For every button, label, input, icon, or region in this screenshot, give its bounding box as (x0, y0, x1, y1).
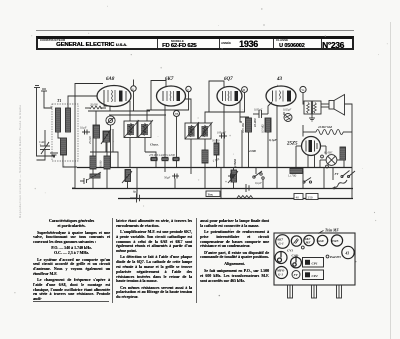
tone switch (253, 171, 264, 179)
grid cap 6Q7 (242, 87, 248, 93)
IF transformer IFT1 secondary (138, 120, 153, 138)
knob CAD (291, 257, 302, 268)
rule between col1 and col2 (112, 218, 113, 303)
svg-text:6Q7: 6Q7 (224, 77, 233, 82)
text column 1 (33, 219, 110, 304)
socket 6A8 (317, 235, 327, 245)
wire IFT2 secondary to 6Q7 grid (205, 92, 245, 123)
wire T1 secondary up (68, 96, 97, 108)
switch FT (335, 171, 356, 178)
wire osc top caps (82, 130, 90, 135)
wire bus y115 (109, 114, 166, 116)
svg-text:40: 40 (296, 195, 300, 199)
svg-text:Yo: Yo (301, 88, 305, 92)
svg-text:25Z5: 25Z5 (331, 239, 339, 243)
svg-text:50µF: 50µF (164, 176, 171, 180)
svg-text:43: 43 (276, 77, 283, 82)
small rivet (301, 246, 304, 249)
svg-text:0,02µF: 0,02µF (283, 109, 292, 112)
wire diode load to bus (204, 163, 206, 188)
svg-text:CAD: CAD (39, 140, 46, 144)
tone box (206, 191, 220, 197)
antenna terminal A2 (41, 89, 47, 91)
wire frame to ground bus (72, 187, 75, 189)
tube 6A8 (97, 86, 131, 107)
svg-text:1,170Ω: 1,170Ω (288, 175, 296, 178)
grid cap 6A8 (131, 86, 136, 91)
detector capacitor row (228, 174, 235, 179)
wire T1 to ground bus (58, 132, 61, 138)
rotated margin caption (18, 60, 26, 220)
IF transformer IFT2 primary (185, 122, 199, 139)
grid cap 6K7 (186, 86, 191, 91)
ballast filament winding (316, 130, 343, 135)
svg-text:20.000: 20.000 (90, 104, 98, 107)
divider resistor row (150, 157, 180, 160)
cell modele (157, 39, 220, 48)
terminal TB (174, 111, 180, 117)
main bus B+ (77, 167, 352, 169)
trimmer box CP1 (303, 258, 324, 268)
wire IFT2 drops (191, 139, 205, 167)
cell numero (321, 39, 352, 48)
socket 6K7 MF (304, 235, 314, 245)
wire right edge (351, 132, 353, 198)
wire 6A8 grid cap to IFT1 (133, 91, 135, 111)
wire osc cluster to bus (95, 152, 97, 167)
resistors 40 250 (294, 194, 303, 200)
svg-text:250: 250 (308, 195, 313, 199)
svg-text:10.000: 10.000 (253, 118, 257, 127)
heater resistor on line (237, 196, 253, 199)
knob FT (292, 271, 300, 279)
svg-text:0,1µF: 0,1µF (80, 127, 87, 130)
coupling capacitor 0,05 (253, 110, 268, 118)
trimmer CAD (37, 130, 51, 160)
socket 6K7 G1 (276, 235, 290, 249)
detector load resistor (214, 139, 219, 167)
switch tone 2 (303, 178, 312, 184)
trimmer box CP2 (303, 270, 324, 280)
osc resistor leads (85, 107, 106, 109)
wire grid hook 6K7 (151, 81, 166, 111)
osc grid resistor (93, 125, 100, 138)
svg-text:25.000: 25.000 (89, 136, 92, 144)
osc padder trimmer (101, 129, 111, 144)
wire 6K7 screen drop (176, 117, 178, 168)
pilot lamp (326, 155, 337, 166)
svg-text:CV1: CV1 (287, 249, 293, 253)
cell annee (219, 39, 274, 48)
svg-text:50.000: 50.000 (212, 140, 220, 143)
T1 lower winding (61, 138, 67, 155)
25Z5 anode leads (296, 146, 326, 167)
wire osc drop (95, 111, 97, 152)
T1 primary coil (56, 108, 61, 132)
wire det drops (128, 130, 345, 198)
svg-text:6A8: 6A8 (318, 239, 324, 243)
main bus line secteur (118, 198, 353, 200)
svg-text:M: M (243, 88, 246, 92)
wire 6K7 cathode drop (164, 106, 166, 168)
wire 6A8 plate drop (129, 101, 131, 121)
lamp terminal circles (321, 155, 329, 168)
svg-text:0,5 MΩ: 0,5 MΩ (262, 124, 265, 133)
wire CV drop (110, 125, 112, 167)
chassis leg 1 (288, 285, 293, 298)
wire y152 link (90, 129, 113, 152)
cell constructeur (38, 39, 158, 48)
IF transformer IFT2 secondary (199, 122, 213, 139)
col1 end rule (33, 300, 109, 303)
label Trim MF (318, 229, 339, 234)
svg-text:G-1: G-1 (279, 242, 284, 246)
wire IFT1 bottoms (130, 138, 156, 168)
socket MFO G-1 (276, 267, 288, 279)
svg-text:0,1µF: 0,1µF (269, 138, 278, 142)
text column 2 (116, 219, 192, 302)
T1 secondary coil (66, 108, 71, 132)
smoothing resistor 1,17M (288, 169, 303, 178)
padder CV circle (106, 116, 115, 125)
wire 25Z5 cathode (308, 155, 315, 167)
header table (36, 36, 354, 50)
resistor 250 (306, 194, 318, 200)
svg-text:MF: MF (305, 241, 312, 245)
chassis layout plan (274, 233, 355, 285)
svg-text:6L 6BC: 6L 6BC (324, 152, 333, 155)
svg-text:Ton.: Ton. (208, 193, 214, 197)
wire T1 bottom (63, 155, 77, 167)
svg-text:CP2: CP2 (312, 274, 318, 278)
ground output transformer (309, 114, 315, 121)
chassis leg 3 (337, 285, 342, 298)
wire transformer to speaker (321, 104, 329, 107)
wire speaker return (345, 104, 353, 132)
socket 43 (342, 246, 354, 258)
svg-text:CP1: CP1 (312, 262, 318, 266)
wire grid hook 6Q7 (209, 81, 224, 112)
wire 43 plate to output transformer (303, 93, 304, 104)
wire antenna lead-in (37, 88, 56, 157)
IF transformer IFT1 primary (124, 120, 139, 138)
svg-text:6A8: 6A8 (106, 77, 115, 82)
volume control potentiometer (122, 170, 132, 184)
wire 6Q7 plate (239, 101, 241, 117)
electrolytic 8µF (130, 194, 140, 203)
wire frame drop (74, 96, 76, 188)
wire plate to coupling cap (240, 117, 249, 118)
oscillator anode resistor (90, 106, 102, 109)
svg-text:T1: T1 (57, 98, 61, 103)
svg-text:FT: FT (294, 273, 299, 277)
cathode capacitor (172, 174, 179, 179)
svg-text:G-1: G-1 (278, 273, 283, 277)
chassis leg 2 (312, 285, 317, 298)
svg-text:Chass.: Chass. (150, 143, 159, 147)
wire antenna to T1 (44, 91, 52, 108)
wire bus y111 (88, 110, 150, 112)
svg-text:Pad PO: Pad PO (330, 255, 341, 259)
label Pad PO (326, 255, 341, 259)
wire coupling to 43 grid (268, 102, 272, 114)
antenna terminal A1 (34, 86, 40, 88)
svg-text:2.000: 2.000 (248, 149, 256, 153)
tuning CV knob (275, 252, 287, 264)
wire ballast ends (303, 125, 352, 137)
filter resistor (340, 147, 346, 160)
wire 43 cathode drop (276, 106, 278, 167)
wire af coupling (240, 117, 242, 122)
tube 6Q7 (217, 87, 242, 106)
tube 6K7 (157, 86, 186, 106)
tube 43 (266, 86, 296, 106)
wire 6Q7 cathode drop (223, 105, 225, 167)
tone capacitor 0,02 (284, 112, 292, 122)
svg-text:Trim MF: Trim MF (325, 229, 339, 233)
left frame wire (75, 84, 103, 97)
wire 6K7 plate to IFT2 (185, 99, 191, 123)
wire osc cluster verticals (93, 138, 107, 188)
diode load resistor (202, 150, 208, 163)
wire grid stub 6A8 (133, 80, 135, 86)
grid resistor 0,5M (265, 118, 271, 132)
svg-text:50.000: 50.000 (100, 160, 103, 168)
cell classe (273, 39, 322, 48)
svg-text:g: g (132, 88, 134, 91)
top thin rule (36, 30, 354, 31)
plate load resistor 0,25M (246, 118, 252, 132)
mains cord (331, 180, 347, 190)
electrolytic 2 (246, 184, 249, 192)
ground T1 (50, 153, 58, 157)
main bus ground (72, 188, 353, 190)
tone control pot (228, 170, 238, 183)
wire lamp leads (320, 159, 343, 161)
wire resistor drops (249, 132, 269, 167)
wire IFT1 secondary to 6K7 grid (147, 92, 189, 121)
svg-text:FT: FT (335, 172, 340, 176)
svg-text:43 6K7 6A8: 43 6K7 6A8 (317, 125, 333, 129)
page edge shadow (390, 22, 391, 339)
svg-text:0,05µF: 0,05µF (254, 109, 263, 112)
AVC capacitor (219, 134, 227, 139)
output transformer (304, 101, 321, 114)
grid cap 43 (300, 86, 306, 92)
tube 25Z5 (302, 137, 321, 156)
transformer T1 shield (dashed) (52, 104, 78, 161)
osc grid leak cluster (90, 156, 110, 169)
socket CA (291, 236, 301, 246)
loudspeaker (329, 95, 345, 116)
wire padder to bus (106, 142, 118, 167)
svg-text:0,5MΩ: 0,5MΩ (233, 158, 237, 168)
svg-text:43: 43 (345, 252, 350, 256)
wire mid step (136, 188, 138, 198)
osc series resistor (87, 172, 101, 180)
text column 3 (200, 219, 269, 291)
socket 25Z5 (331, 235, 343, 246)
svg-text:100µµF: 100µµF (217, 132, 226, 135)
svg-text:TB: TB (175, 112, 179, 116)
padding capacitor (80, 178, 87, 184)
svg-text:0,1µF: 0,1µF (255, 182, 262, 185)
svg-text:470.000 24.000 14.000: 470.000 24.000 14.000 (149, 154, 175, 157)
svg-text:g: g (187, 89, 189, 92)
rule between col2 and col3 (196, 218, 197, 303)
wire 6A8 cathode step (104, 101, 118, 111)
